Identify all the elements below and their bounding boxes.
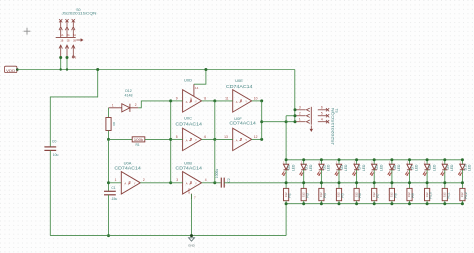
junction VDD rail / C0 branch	[96, 68, 99, 71]
resistor R11	[442, 183, 447, 204]
svg-text:R11: R11	[446, 192, 450, 198]
svg-text:LED: LED	[379, 164, 383, 171]
svg-text:100k: 100k	[134, 138, 144, 142]
pin numbers D0	[283, 160, 285, 176]
svg-text:LED: LED	[450, 164, 454, 171]
label U0E value CD74AC14	[226, 84, 253, 89]
label C1	[111, 186, 115, 190]
svg-text:VDD: VDD	[6, 69, 15, 73]
junction U0F out	[260, 138, 263, 141]
switch S0 pin end circle	[72, 56, 74, 58]
pin number U0F-13	[224, 135, 228, 139]
op-amp U0C CD74AC14 inverter	[183, 128, 202, 150]
pin number U0A-1	[115, 178, 117, 182]
svg-text:5: 5	[176, 135, 178, 139]
svg-text:1B: 1B	[60, 39, 63, 42]
wire U0A input	[109, 182, 122, 184]
label LED 6 value	[397, 164, 401, 171]
junction U0E out	[260, 99, 263, 102]
wire driver output to S1 pin1	[262, 121, 295, 123]
label LED 0 value	[291, 164, 295, 171]
junction LED column 3	[338, 158, 341, 205]
junction net out row1	[213, 99, 216, 102]
svg-text:U0D: U0D	[184, 78, 192, 83]
svg-text:U0E: U0E	[235, 78, 243, 83]
LED D9	[441, 160, 448, 183]
svg-text:1: 1	[115, 178, 117, 182]
label D3	[340, 165, 344, 170]
junction net out row2	[213, 138, 216, 141]
wire U0E output	[252, 100, 262, 102]
wire U0B input	[171, 182, 183, 184]
pin numbers D10	[459, 160, 461, 176]
junction VDD pin	[16, 68, 19, 71]
pin numbers D2	[318, 160, 320, 176]
wire VDD to C0	[50, 70, 97, 147]
wire U0E/U0F outputs vertical	[261, 101, 263, 139]
label C2 value 1000u	[215, 169, 219, 178]
label R5	[341, 193, 345, 198]
resistor R0	[106, 118, 111, 131]
wire U0D output	[202, 100, 215, 102]
wire LED bottom rail	[286, 203, 462, 205]
wire GND rail	[50, 235, 286, 237]
pin numbers D5	[371, 160, 373, 176]
svg-text:CD74AC14: CD74AC14	[229, 120, 256, 125]
LED D8	[423, 160, 430, 183]
pin number U0F-12	[254, 135, 258, 139]
resistor R4	[319, 183, 324, 204]
label R11 value	[443, 192, 447, 197]
label R3 value	[301, 192, 305, 197]
svg-text:R10: R10	[429, 192, 433, 198]
switch S1 common bar	[310, 107, 312, 132]
svg-text:A: A	[186, 182, 188, 186]
pin number U0C-5	[176, 135, 178, 139]
label U0F value CD74AC14	[229, 120, 256, 125]
power port VDD	[5, 66, 17, 73]
svg-text:CD74AC14: CD74AC14	[175, 166, 202, 171]
svg-text:1000u: 1000u	[215, 169, 219, 178]
svg-text:13: 13	[224, 135, 228, 139]
label R2	[288, 193, 292, 198]
svg-text:C0: C0	[52, 140, 56, 144]
svg-text:6: 6	[204, 135, 206, 139]
svg-text:R12: R12	[464, 192, 468, 198]
junction GND rail / C1	[107, 234, 110, 237]
resistor R5	[336, 183, 341, 204]
svg-text:LED: LED	[291, 164, 295, 171]
label C0	[52, 140, 56, 144]
LED D5	[370, 160, 377, 183]
pin number U0B-3	[176, 178, 178, 182]
wire VDD rail	[17, 69, 295, 71]
pin number U0B-4	[205, 178, 207, 182]
op-amp U0E CD74AC14 inverter	[233, 90, 252, 112]
resistor R3	[301, 183, 306, 204]
resistor R7	[372, 183, 377, 204]
pin number U0D-8	[204, 96, 206, 100]
wire LED top rail	[286, 159, 462, 161]
label D12 value 4148	[125, 94, 133, 98]
label R0	[112, 122, 116, 126]
label D5	[375, 165, 379, 170]
wire U0B out to C2	[215, 182, 221, 184]
label LED 2 value	[327, 164, 331, 171]
pin numbers D9	[442, 160, 444, 176]
svg-text:R3: R3	[305, 193, 309, 198]
resistor R12	[460, 183, 465, 204]
wire LED bottom rail to GND rail	[285, 204, 287, 236]
junction VDD rail / U0D VCC	[204, 68, 207, 71]
svg-text:R7: R7	[376, 193, 380, 198]
svg-text:GND: GND	[188, 243, 196, 247]
svg-text:R9: R9	[411, 193, 415, 198]
svg-text:R8: R8	[394, 193, 398, 198]
svg-text:3: 3	[176, 178, 178, 182]
svg-text:1: 1	[112, 104, 114, 108]
pin U0D-14 VCC pin	[190, 84, 198, 102]
svg-text:U0C: U0C	[184, 115, 192, 120]
label D2	[322, 165, 326, 170]
label U0B value CD74AC14	[175, 166, 202, 171]
svg-text:R0: R0	[112, 122, 116, 126]
wire C0 to GND rail	[49, 150, 51, 235]
resistor R6	[354, 183, 359, 204]
svg-text:4: 4	[321, 117, 323, 121]
svg-text:.15u: .15u	[111, 197, 118, 201]
wire net B to R1	[109, 138, 133, 140]
label R5 value	[337, 192, 341, 197]
junction LED column 10	[461, 158, 464, 205]
svg-text:LED: LED	[309, 164, 313, 171]
svg-text:8: 8	[204, 96, 206, 100]
wire U0D input	[171, 100, 183, 102]
label R10	[429, 192, 433, 198]
label R8 value	[390, 192, 394, 197]
wire U0C output	[202, 138, 215, 140]
label R8	[394, 193, 398, 198]
label LED 5 value	[379, 164, 383, 171]
junction net A row2	[169, 138, 172, 141]
junction S0 pins	[59, 56, 68, 59]
label C1 value .15u	[111, 197, 118, 201]
label D12	[125, 89, 132, 93]
label U0B	[184, 161, 192, 166]
junction net B	[107, 138, 110, 141]
pin numbers D7	[407, 160, 409, 176]
capacitor C2	[221, 178, 224, 188]
pin numbers D6	[389, 160, 391, 176]
label R7	[376, 193, 380, 198]
svg-text:R4: R4	[323, 193, 327, 198]
label R6	[358, 193, 362, 198]
label U0C	[184, 115, 192, 120]
label U0D	[184, 78, 192, 83]
op-amp U0D CD74AC14 inverter	[183, 90, 202, 112]
svg-text:C2: C2	[227, 178, 231, 182]
label U0A	[124, 161, 132, 166]
svg-text:LED: LED	[327, 164, 331, 171]
svg-text:LED: LED	[468, 164, 472, 171]
label R10 value	[425, 192, 429, 197]
resistor R2	[284, 183, 289, 204]
svg-text:LED: LED	[415, 164, 419, 171]
wire LED middle rail	[286, 182, 462, 184]
capacitor C0	[44, 147, 56, 151]
switch S0 poles	[59, 19, 75, 57]
svg-text:1: 1	[299, 117, 301, 121]
svg-text:3: 3	[299, 105, 301, 109]
wire net A vertical	[170, 101, 172, 183]
label LED 8 value	[432, 164, 436, 171]
svg-text:5: 5	[321, 111, 323, 115]
pin numbers D4	[354, 160, 356, 176]
wire R0 to net B	[108, 131, 110, 140]
junction LED column 9	[443, 158, 446, 205]
svg-text:2B: 2B	[67, 39, 70, 42]
svg-text:6: 6	[321, 105, 323, 109]
label C2	[227, 178, 231, 182]
pin U0B-7 GND pin	[188, 188, 196, 199]
svg-text:11: 11	[225, 96, 229, 100]
svg-text:S1: S1	[335, 108, 339, 112]
LED D10	[458, 160, 465, 183]
switch S0 value JS202011SCQN	[62, 11, 97, 16]
label U0E	[235, 78, 243, 83]
svg-text:9: 9	[176, 96, 178, 100]
pin number U0E-10	[254, 96, 258, 100]
junction LED column 8	[426, 158, 429, 205]
pin numbers D3	[336, 160, 338, 176]
wire paralleled outputs vertical	[214, 101, 216, 183]
wire R1 to net A	[145, 138, 171, 140]
svg-text:A: A	[236, 100, 238, 104]
pin number U0E-11	[225, 96, 229, 100]
junction LED column 6	[390, 158, 393, 205]
wire U0A output to net A	[140, 182, 170, 184]
label LED 9 value	[450, 164, 454, 171]
label R1 value 100k	[134, 138, 144, 142]
label D9	[446, 165, 450, 170]
label LED 10 value	[468, 164, 472, 171]
label D0	[287, 165, 291, 170]
label R12 value	[460, 192, 464, 197]
svg-text:10u: 10u	[53, 153, 59, 157]
junction S1 pins	[294, 108, 297, 123]
pin numbers D8	[424, 160, 426, 176]
svg-text:R2: R2	[288, 193, 292, 198]
svg-text:1A: 1A	[60, 34, 63, 37]
op-amp U0F CD74AC14 inverter	[233, 128, 252, 150]
label D1	[305, 165, 309, 170]
svg-text:R5: R5	[341, 193, 345, 198]
resistor R1	[132, 137, 145, 142]
label D6	[393, 165, 397, 170]
label C0 value 10u	[53, 153, 59, 157]
switch S1 ref S1	[335, 108, 339, 112]
wire U0B output	[202, 182, 215, 184]
switch S1 pin numbers	[299, 105, 323, 121]
wire S1 pin2 stub	[286, 115, 295, 117]
junction LED column 5	[373, 158, 376, 205]
junction net C2 / U0B out	[213, 181, 216, 184]
svg-text:LED: LED	[362, 164, 366, 171]
pin number U0C-6	[204, 135, 206, 139]
wire S0 pin2 to VDD rail	[66, 58, 68, 70]
wire U0F input	[215, 138, 233, 140]
pin number U0A-2	[143, 178, 145, 182]
label R4	[323, 193, 327, 198]
wire U0B pin7 to GND rail	[191, 194, 193, 236]
junction LED column 1	[302, 158, 305, 205]
junction net B / U0A input	[107, 181, 110, 184]
junction LED column 7	[408, 158, 411, 205]
label R12	[464, 192, 468, 198]
label R7 value	[372, 192, 376, 197]
wire D12 cathode to net A	[138, 101, 170, 108]
svg-text:LED: LED	[432, 164, 436, 171]
label D7	[411, 165, 415, 170]
LED D7	[405, 160, 412, 183]
junction GND rail / U0B pin7	[190, 234, 193, 237]
svg-text:CD74AC14: CD74AC14	[175, 121, 202, 126]
svg-text:R1: R1	[135, 143, 139, 147]
svg-text:CD74AC14: CD74AC14	[114, 166, 141, 171]
svg-text:GND: GND	[188, 188, 191, 194]
LED D3	[335, 160, 342, 183]
svg-text:A: A	[186, 138, 188, 142]
svg-text:C1: C1	[111, 186, 115, 190]
switch S0 common bar	[56, 37, 83, 41]
junction LED feed	[285, 120, 288, 123]
wire C1 to GND rail	[108, 195, 110, 236]
junction net A row1	[169, 99, 172, 102]
LED D6	[388, 160, 395, 183]
wire U0C input	[171, 138, 183, 140]
label R11	[446, 192, 450, 198]
svg-text:2: 2	[143, 178, 145, 182]
label R2 value	[284, 192, 288, 197]
resistor R8	[389, 183, 394, 204]
label LED 4 value	[362, 164, 366, 171]
label R9	[411, 193, 415, 198]
pin number D12-2	[135, 103, 137, 107]
op-amp U0A CD74AC14 inverter	[121, 172, 140, 194]
svg-text:4148: 4148	[125, 94, 133, 98]
LED D0	[282, 160, 289, 183]
svg-text:14: 14	[195, 86, 199, 90]
op-amp U0B CD74AC14 inverter	[183, 172, 202, 194]
svg-text:R6: R6	[358, 193, 362, 198]
diode D12	[109, 104, 139, 112]
wire U0E input	[215, 100, 233, 102]
LED D1	[300, 160, 307, 183]
svg-text:4: 4	[205, 178, 207, 182]
label LED 1 value	[309, 164, 313, 171]
ground GND symbol	[188, 238, 196, 248]
label LED 3 value	[344, 164, 348, 171]
switch S1 value JS202011SCQN	[331, 107, 335, 145]
label R4 value	[319, 192, 323, 197]
svg-text:A: A	[236, 138, 238, 142]
svg-text:LED: LED	[397, 164, 401, 171]
junction LED column 2	[320, 158, 323, 205]
svg-text:A: A	[186, 100, 188, 104]
label R1	[135, 143, 139, 147]
svg-text:JS202011SCQN: JS202011SCQN	[62, 11, 97, 16]
wire D12 anode to R0	[108, 108, 110, 118]
switch S0 pin numbers	[60, 34, 76, 60]
svg-text:VCC: VCC	[190, 97, 193, 102]
svg-text:10: 10	[254, 96, 258, 100]
LED D4	[352, 160, 359, 183]
label R9 value	[407, 192, 411, 197]
wire U0F output	[252, 138, 262, 140]
svg-text:2A: 2A	[67, 34, 70, 37]
svg-text:3A: 3A	[73, 34, 76, 37]
pin number U0D-9	[176, 96, 178, 100]
svg-text:A: A	[124, 182, 126, 186]
junction driver output tap	[260, 120, 263, 123]
pin numbers D1	[301, 160, 303, 176]
label D10	[463, 164, 467, 170]
svg-text:2: 2	[135, 103, 137, 107]
label D4	[358, 165, 362, 170]
svg-text:D12: D12	[125, 89, 132, 93]
label R3	[305, 193, 309, 198]
wire LED feed vertical	[285, 116, 287, 160]
label U0F	[234, 116, 242, 121]
svg-text:12: 12	[254, 135, 258, 139]
LED D2	[317, 160, 324, 183]
switch S1 poles	[295, 108, 329, 123]
resistor R9	[407, 183, 412, 204]
svg-text:2: 2	[299, 111, 301, 115]
label LED 7 value	[415, 164, 419, 171]
label U0A value CD74AC14	[114, 166, 141, 171]
wire C2 to LED middle rail	[224, 182, 286, 184]
svg-text:CD74AC14: CD74AC14	[226, 84, 253, 89]
pin number D12-1	[112, 104, 114, 108]
label R6 value	[354, 192, 358, 197]
junction LED column 4	[355, 158, 358, 205]
wire net B down to C1	[108, 139, 110, 191]
switch S0 ref S0	[76, 8, 80, 12]
svg-text:LED: LED	[344, 164, 348, 171]
svg-text:3B: 3B	[73, 39, 76, 42]
wire VDD rail to S1 pin3	[294, 70, 296, 122]
junction VDD rail at S0	[60, 68, 69, 70]
label U0C value CD74AC14	[175, 121, 202, 126]
resistor R10	[425, 183, 430, 204]
wire S0 pin1 to VDD rail	[60, 58, 62, 70]
label D8	[428, 165, 432, 170]
junction LED column 0	[285, 158, 288, 205]
junction net A / U0A out / U0B in	[169, 181, 172, 184]
capacitor C1	[104, 191, 116, 195]
wire VDD to U0D pin14	[194, 70, 206, 85]
svg-text:JS202011SCQN: JS202011SCQN	[331, 107, 335, 145]
origin marker +	[24, 28, 31, 35]
